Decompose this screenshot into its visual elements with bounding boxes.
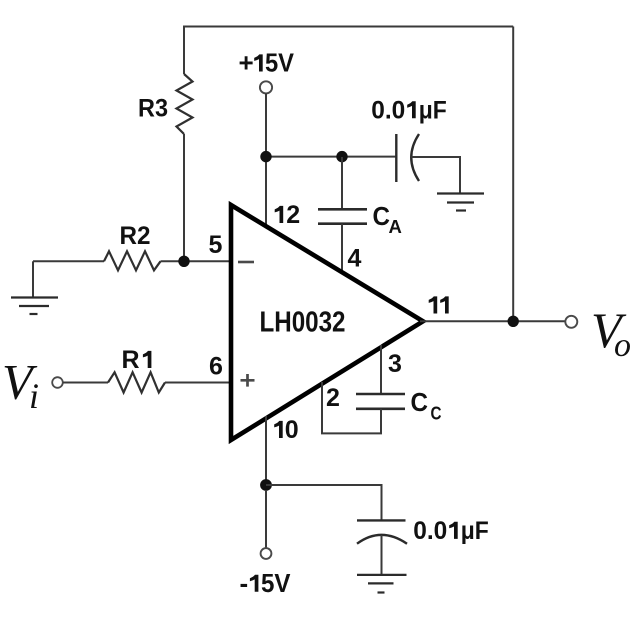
svg-text:A: A [389,216,402,237]
label pin 11 [429,296,449,313]
wire: CA to pin 4 [341,224,343,274]
capacitor CC [356,394,405,409]
wire: R3 top lead [183,26,185,75]
junction: output node [508,316,519,327]
svg-text:μF: μF [419,96,447,124]
wire: CA tap down to CA [341,157,343,209]
label R1 [122,346,152,374]
capacitor CA [318,209,367,223]
svg-text:C: C [411,387,429,417]
wire: +15V terminal down to V+ node [265,93,267,157]
wire: feedback right drop to output node [512,27,514,322]
junction: CA tap node [336,151,347,162]
wire: Vi terminal to R1 [63,382,108,384]
wire: R3 bottom lead to summing node [183,134,185,261]
wire: V+ node to pin 12 [265,157,267,228]
label 0.01uF (V- bypass) [413,517,488,545]
svg-text:2: 2 [326,384,340,412]
svg-text:0.0: 0.0 [413,517,447,545]
label 0.01uF (V+ bypass) [371,96,446,124]
svg-text:R: R [122,346,140,374]
marker: inverting input (-) [238,261,254,264]
svg-text:0.0: 0.0 [371,96,405,124]
svg-text:0: 0 [285,416,299,444]
svg-text:6: 6 [209,353,223,381]
svg-text:C: C [431,402,442,423]
svg-text:i: i [29,376,39,416]
ground: V- bypass [357,575,407,593]
label +15V [239,48,295,78]
capacitor 0.01uF V- bypass: curved plate [357,535,407,544]
svg-text:+: + [239,48,254,78]
svg-text:LH0032: LH0032 [260,307,346,339]
svg-text:o: o [614,327,631,364]
junction: V- node [260,479,272,491]
wire: pin 10 down to V- node [265,416,267,485]
wire: CC bottom loop to pin 2 [322,382,381,433]
wire: V- node to bypass capacitor [266,485,382,520]
svg-text:R2: R2 [120,222,151,250]
terminal Vi [52,377,63,388]
svg-text:4: 4 [348,245,362,273]
wire: bypass cap to ground [381,535,383,575]
terminal +15V [260,81,272,93]
ground: R2 reference [11,298,58,315]
op-amp U1 LH0032 [231,205,423,440]
label pin 12 [275,201,301,229]
resistor R3 [177,74,193,134]
junction: V+ node [260,151,271,162]
ground: V+ bypass [437,194,484,211]
wire: top feedback horizontal [184,26,513,28]
capacitor 0.01uF V+ bypass: curved plate [411,134,419,181]
svg-text:μF: μF [461,517,489,545]
label -15V [240,568,292,598]
wire: pin 11 output [420,320,566,322]
resistor R1 [108,372,165,392]
wire: R1 to pin 6 [165,382,233,384]
wire: V+ node across to bypass capacitor [266,156,396,158]
capacitor 0.01uF V+ bypass: straight plate [395,134,397,182]
wire: R2 left lead to ground [32,261,34,297]
svg-text:3: 3 [388,350,402,378]
svg-text:5: 5 [209,231,223,259]
junction: summing node (pin 5 / R2 / R3) [178,256,189,267]
svg-text:5V: 5V [265,48,295,78]
resistor R2 [104,251,161,270]
svg-text:-: - [240,568,249,598]
terminal -15V [261,548,272,559]
wire: pin 5 input from ground/R2 [33,260,233,262]
wire: pin 3 to CC [380,345,382,394]
capacitor 0.01uF V- bypass: straight plate [357,519,406,521]
marker: non-inverting input (+) [241,374,255,387]
wire: bypass cap to ground stub [411,157,460,194]
wire: V- node to -15V terminal [265,491,267,548]
terminal Vo [565,316,577,328]
svg-text:2: 2 [286,201,300,229]
svg-text:R3: R3 [138,95,168,123]
label pin 10 [274,416,299,444]
svg-text:5V: 5V [261,568,291,598]
